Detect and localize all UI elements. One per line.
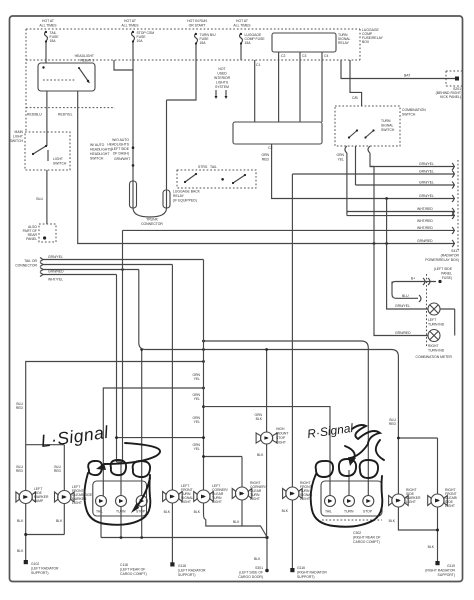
svg-text:PANEL: PANEL [441, 272, 452, 276]
svg-text:KICK PANEL): KICK PANEL) [440, 95, 461, 99]
combination switch pin curls [336, 146, 370, 162]
right bus wire 4 GRN/YEL from hazard pin [261, 144, 455, 200]
wire switch down [36, 170, 47, 224]
wire high mount stop down [257, 444, 267, 538]
fuse F2 STOP 10A [132, 31, 155, 43]
svg-text:HEADLIGHT: HEADLIGHT [90, 152, 109, 156]
svg-text:LIGHT: LIGHT [212, 500, 222, 504]
svg-text:ALL TIMES: ALL TIMES [121, 24, 139, 28]
wire relay K1 pin 3 to hazard switch [321, 52, 323, 122]
svg-text:BLU: BLU [402, 294, 409, 298]
trunk connector label [15, 259, 37, 268]
svg-text:10A: 10A [137, 39, 144, 43]
svg-text:BLK: BLK [282, 509, 289, 513]
svg-text:COMBINATION METER: COMBINATION METER [416, 355, 453, 359]
hand circle right blob 1 [316, 461, 333, 477]
left kick panel label [434, 267, 453, 280]
svg-text:TURN IND: TURN IND [428, 323, 445, 327]
relay U1 headlight relay 1 box [38, 54, 95, 91]
svg-text:(LEFT SIDE: (LEFT SIDE [111, 147, 130, 151]
fuse F3 TURN B/U 15A [195, 33, 217, 45]
wire chain B rear lights right [139, 270, 399, 439]
svg-text:RELAY: RELAY [338, 41, 350, 45]
svg-text:CARGO DOOR): CARGO DOOR) [238, 575, 263, 579]
svg-text:CONNECTOR: CONNECTOR [141, 222, 163, 226]
svg-text:WHT/RED: WHT/RED [417, 219, 433, 223]
bulb socket C right [363, 496, 374, 514]
svg-text:BLK: BLK [233, 520, 240, 524]
svg-text:RED: RED [16, 406, 24, 410]
connector pins into meter [402, 274, 427, 347]
wire relay K1 pin 2 to hazard switch [299, 52, 301, 122]
svg-text:TURN IND: TURN IND [428, 349, 445, 353]
wire front park loop [26, 445, 65, 491]
fuse F1 TAIL 15A [45, 31, 60, 43]
wire tail connector D [40, 273, 117, 282]
lamp B1 left side marker [16, 491, 36, 504]
wire stop fuse down to trunk connector [132, 43, 134, 209]
bulb socket C left [136, 496, 147, 514]
svg-text:GRN: GRN [261, 153, 269, 157]
lamp B9 high mount stop light [256, 432, 277, 444]
svg-text:C3: C3 [302, 54, 306, 58]
right bus wire 2 GRN/YEL from hazard corner [292, 170, 455, 175]
svg-text:STRG: STRG [198, 165, 208, 169]
wire cluster feed A [103, 387, 205, 462]
svg-text:SUPPORT): SUPPORT) [438, 573, 455, 577]
hand circle right blob 2 [339, 459, 356, 476]
right bus wire 3 GRN/YEL [356, 181, 456, 186]
wire right cluster top feed [204, 407, 331, 462]
svg-text:POWER/RELAY BOX): POWER/RELAY BOX) [425, 258, 459, 262]
svg-text:YEL: YEL [194, 447, 201, 451]
svg-text:LIGHT: LIGHT [300, 497, 310, 501]
svg-text:MAIN: MAIN [15, 130, 24, 134]
wire splice S301 drop [238, 538, 268, 580]
svg-text:BLK: BLK [254, 557, 261, 561]
svg-text:BLU: BLU [36, 197, 43, 201]
svg-text:RED: RED [389, 422, 397, 426]
svg-text:HOT AT: HOT AT [124, 19, 136, 23]
right bus wire 7 WHT/RED [123, 226, 456, 230]
wire relay out 2 long run to right bus [78, 91, 455, 244]
svg-text:GRN/RED: GRN/RED [417, 239, 433, 243]
hand arrow R2 [350, 440, 384, 460]
wire comb switch pin1 to bus pair [347, 153, 349, 216]
svg-text:W/ AUTO: W/ AUTO [90, 143, 105, 147]
svg-text:GRN/YEL: GRN/YEL [419, 181, 434, 185]
svg-text:HOT AT: HOT AT [42, 19, 54, 23]
svg-text:(RIGHT RADIATOR: (RIGHT RADIATOR [425, 569, 455, 573]
svg-text:WHT/RED: WHT/RED [417, 226, 433, 230]
svg-text:GRN/YEL: GRN/YEL [419, 194, 434, 198]
svg-text:(LEFT RADIATOR: (LEFT RADIATOR [178, 569, 206, 573]
svg-text:G118: G118 [178, 564, 186, 568]
left tail light assembly box [93, 462, 147, 516]
svg-text:RELAY 1: RELAY 1 [80, 59, 94, 63]
svg-text:C118: C118 [120, 563, 128, 567]
svg-text:RED/BLU: RED/BLU [27, 113, 42, 117]
svg-text:SWITCH: SWITCH [381, 128, 395, 132]
svg-text:SWITCH: SWITCH [10, 139, 24, 143]
svg-text:RED: RED [54, 469, 62, 473]
node label HOT AT ALL TIMES (tail fuse) [39, 19, 57, 28]
wire comb switch pin mid to bus 3 [355, 146, 357, 185]
svg-text:BLK: BLK [164, 510, 171, 514]
svg-text:WHT/RED: WHT/RED [417, 207, 433, 211]
svg-text:PANEL: PANEL [26, 237, 37, 241]
svg-text:SIGNAL: SIGNAL [381, 124, 394, 128]
svg-text:CONNECTOR: CONNECTOR [15, 264, 37, 268]
svg-text:TRUNK: TRUNK [146, 218, 158, 222]
svg-text:RED: RED [16, 469, 24, 473]
headlight switch note mid [90, 143, 112, 161]
junction dots on bus GRN/RED [373, 239, 434, 245]
svg-text:MOUNT: MOUNT [276, 432, 288, 436]
svg-text:TAIL: TAIL [96, 510, 103, 514]
svg-text:HIGH: HIGH [276, 427, 285, 431]
lamp B6 right front turn signal [283, 487, 303, 500]
hand circle left blob 3 [133, 461, 150, 477]
svg-text:HOT AT: HOT AT [236, 19, 248, 23]
svg-text:LAMP: LAMP [34, 499, 44, 503]
svg-text:SWITCH: SWITCH [53, 162, 67, 166]
wire right clearance ground jog [233, 500, 267, 561]
wire tail connector A [40, 255, 204, 262]
hand circle right blob 3 [360, 460, 378, 478]
svg-text:ALL TIMES: ALL TIMES [39, 24, 57, 28]
wire to combination meter B+ [392, 277, 442, 299]
fuse F4 LUGGAGE 15A [240, 33, 266, 45]
hand circle left blob 1 [88, 461, 102, 475]
right edge connector marks [452, 160, 458, 250]
svg-text:STOP: STOP [276, 436, 286, 440]
hand arrow L [104, 443, 160, 464]
right assembly connector row [322, 520, 382, 544]
connector C-bat dashed [446, 71, 464, 86]
node label HOT IN RUN OR START [187, 19, 207, 28]
bulb socket A left [96, 496, 107, 514]
svg-text:INTERIOR: INTERIOR [214, 76, 231, 80]
svg-text:SYSTEM: SYSTEM [215, 85, 229, 89]
svg-text:STOP: STOP [136, 510, 146, 514]
combination meter label [416, 355, 453, 359]
svg-text:LIGHT: LIGHT [276, 441, 286, 445]
svg-text:RIGHT: RIGHT [428, 344, 439, 348]
svg-text:S417: S417 [451, 249, 459, 253]
luggage comp fuse/relay box label [362, 28, 384, 44]
handwriting R-Signal [306, 421, 354, 441]
wire luggage fuse down [240, 45, 242, 61]
svg-text:FUSE): FUSE) [442, 276, 452, 280]
bottom bus wire [101, 536, 269, 539]
fuse panel dashed box [26, 29, 360, 132]
wire turn fuse down [167, 45, 197, 101]
bulb socket A right [325, 496, 336, 514]
wire right front turn feed [291, 174, 293, 487]
svg-text:GRN/YEL: GRN/YEL [395, 304, 410, 308]
ground chain G102 [17, 504, 64, 576]
svg-text:BLK: BLK [194, 510, 201, 514]
svg-text:(LEFT RADIATOR: (LEFT RADIATOR [31, 567, 59, 571]
switch box hazard switch [233, 122, 322, 150]
switch S1 light switch dashed box [10, 130, 70, 170]
svg-text:BOX: BOX [362, 40, 370, 44]
wire color labels park pair [16, 465, 62, 473]
svg-text:G116: G116 [297, 566, 305, 570]
svg-text:USED: USED [217, 72, 227, 76]
right tail light assembly box [321, 462, 382, 516]
wire fuse panel to hazard switch [254, 60, 256, 122]
bulb socket B left [116, 496, 127, 514]
interior lights system reference [214, 67, 231, 99]
bulb socket B right [344, 496, 355, 514]
left assembly label C118 [120, 563, 147, 576]
svg-text:C2: C2 [281, 54, 285, 58]
svg-text:GRN/YEL: GRN/YEL [419, 170, 434, 174]
svg-text:CARGO COMPT): CARGO COMPT) [353, 540, 380, 544]
svg-text:LIGHT: LIGHT [250, 497, 260, 501]
svg-text:LIGHT: LIGHT [72, 501, 82, 505]
svg-text:TAIL OR: TAIL OR [24, 259, 37, 263]
svg-text:HOT IN RUN: HOT IN RUN [187, 19, 207, 23]
svg-text:BLK: BLK [256, 417, 263, 421]
svg-text:RED: RED [262, 158, 270, 162]
svg-text:SUPPORT): SUPPORT) [178, 573, 195, 577]
svg-text:G119: G119 [447, 564, 455, 568]
svg-text:YEL: YEL [338, 158, 345, 162]
svg-text:YEL: YEL [194, 377, 201, 381]
svg-text:TAIL: TAIL [325, 510, 332, 514]
svg-text:GRN/WHT: GRN/WHT [114, 157, 130, 161]
svg-text:GRN: GRN [336, 153, 344, 157]
wire tail connector B [40, 263, 172, 274]
relay K1 turn signal relay box [272, 33, 351, 52]
wire relay out 1 [46, 91, 48, 146]
svg-text:BLK: BLK [17, 549, 24, 553]
wire cluster feed D [140, 348, 143, 462]
wire right front clearance feed jog [202, 455, 242, 487]
wire relay K1 pin 1 to hazard switch [278, 52, 280, 122]
svg-text:TURN: TURN [381, 119, 391, 123]
svg-text:15A: 15A [245, 41, 252, 45]
lamp B3 left front turn signal [163, 490, 183, 503]
wire chain B split to B7 B8 [389, 418, 438, 494]
svg-text:LIGHT: LIGHT [445, 504, 455, 508]
hand loop around right assembly [311, 474, 383, 527]
svg-text:(LEFT REAR OF: (LEFT REAR OF [120, 568, 145, 572]
svg-text:COMBINATION: COMBINATION [402, 108, 426, 112]
svg-text:TAIL: TAIL [210, 165, 217, 169]
svg-text:G102: G102 [31, 562, 39, 566]
svg-text:GRN/YEL: GRN/YEL [48, 255, 63, 259]
lamp B4 left cornering [194, 490, 214, 503]
wire cluster feed B [117, 275, 204, 463]
hand scribble R tail [352, 425, 380, 443]
svg-text:OR START: OR START [189, 24, 206, 28]
svg-text:W/O AUTO: W/O AUTO [112, 138, 129, 142]
svg-text:15A: 15A [200, 41, 207, 45]
svg-text:BLK: BLK [389, 519, 396, 523]
svg-text:(RADIATOR: (RADIATOR [441, 254, 460, 258]
wire chain A rear lights right [202, 340, 368, 462]
svg-text:SWITCH: SWITCH [90, 157, 104, 161]
wire comb switch pin2 to bus 1 [370, 153, 374, 167]
svg-text:NOT: NOT [218, 67, 225, 71]
right bus wire 5 WHT/RED [347, 207, 455, 212]
svg-text:15A: 15A [50, 39, 57, 43]
svg-text:GRN/RED: GRN/RED [48, 270, 64, 274]
right bus wire 6 WHT/RED [347, 216, 455, 223]
connector C90 dashed with splice [23, 224, 56, 242]
indicator L1 left turn bulb [387, 199, 455, 336]
svg-text:SUPPORT): SUPPORT) [297, 575, 314, 579]
indicator L2 right turn bulb [374, 167, 445, 353]
wire cluster feed C [122, 230, 124, 462]
wire front park pair feed [16, 360, 205, 445]
svg-text:OF DASH): OF DASH) [113, 152, 129, 156]
svg-text:ALL TIMES: ALL TIMES [233, 24, 251, 28]
svg-text:(LEFT SIDE: (LEFT SIDE [434, 267, 453, 271]
svg-text:BLK: BLK [257, 453, 264, 457]
svg-text:TURN: TURN [344, 510, 354, 514]
splice label S417 [425, 249, 459, 262]
svg-text:(IF EQUIPPED): (IF EQUIPPED) [173, 199, 197, 203]
svg-text:C4: C4 [324, 54, 328, 58]
jog wire auto headlight pin [114, 60, 133, 70]
svg-text:(RIGHT REAR OF: (RIGHT REAR OF [353, 536, 381, 540]
svg-text:CARGO COMPT): CARGO COMPT) [120, 572, 147, 576]
hand loop around left assembly [84, 473, 150, 525]
svg-text:B+: B+ [411, 277, 415, 281]
svg-text:BLK: BLK [428, 545, 435, 549]
svg-text:SWITCH: SWITCH [402, 113, 416, 117]
switch S2 luggage back switch dashed [173, 165, 256, 203]
svg-text:RED/YEL: RED/YEL [58, 113, 73, 117]
node label HOT AT ALL TIMES (stop fuse) [121, 19, 139, 28]
svg-text:HEADLIGHTS: HEADLIGHTS [90, 148, 112, 152]
lamp B2 left front clearance [55, 491, 75, 504]
wire tail fuse to headlight relay [45, 43, 47, 64]
svg-text:LIGHTS: LIGHTS [216, 81, 229, 85]
ground chain G118 [164, 503, 206, 577]
svg-text:GRN/RED: GRN/RED [395, 331, 411, 335]
hand circle left blob 2 [111, 460, 126, 475]
trunk pass-through connector U-shape [130, 100, 171, 226]
svg-text:LIGHT: LIGHT [13, 135, 23, 139]
svg-text:(RIGHT RADIATOR: (RIGHT RADIATOR [297, 571, 327, 575]
svg-text:LIGHT: LIGHT [181, 500, 191, 504]
battery feed wire B+ [341, 60, 457, 79]
right bus wire 1 GRN/YEL [370, 162, 455, 167]
svg-text:(LEFT SIDE OF: (LEFT SIDE OF [239, 571, 263, 575]
svg-text:BLK: BLK [17, 519, 24, 523]
ground G117 right front turn [290, 500, 327, 579]
svg-text:RELAY: RELAY [173, 194, 185, 198]
svg-text:GRN/YEL: GRN/YEL [419, 162, 434, 166]
node label HOT AT ALL TIMES (luggage fuse) [233, 19, 251, 28]
svg-text:C/B: C/B [352, 96, 358, 100]
svg-text:C302: C302 [353, 531, 361, 535]
hand arrow into left assembly [134, 478, 150, 510]
connector dashed line C100 [26, 108, 115, 117]
svg-text:SUPPORT): SUPPORT) [31, 571, 48, 575]
pin labels below relay [256, 54, 328, 67]
auto headlamp module note [107, 138, 134, 167]
svg-text:LIGHT: LIGHT [53, 157, 63, 161]
svg-text:YEL: YEL [194, 397, 201, 401]
svg-text:LUGGAGE BACK: LUGGAGE BACK [173, 190, 201, 194]
wire tail connector C [40, 268, 139, 272]
svg-text:HEADLIGHTS: HEADLIGHTS [107, 143, 129, 147]
lamp B8 right front clearance light [428, 494, 448, 507]
ground chain G119 [389, 507, 456, 577]
svg-text:BLK: BLK [56, 519, 63, 523]
wire high mount stop feed [254, 348, 268, 432]
left assembly ground drops [101, 507, 142, 538]
wire left front turn feed [171, 265, 173, 491]
lamp B5 right front clearance [232, 487, 252, 500]
svg-text:LIGHT: LIGHT [406, 500, 416, 504]
svg-text:BAT: BAT [404, 74, 410, 78]
lamp B7 right side marker [389, 494, 409, 507]
node label S201 [436, 87, 462, 99]
svg-text:LEFT: LEFT [428, 318, 436, 322]
handwriting L-Signal [39, 422, 110, 451]
svg-text:HEADLIGHT: HEADLIGHT [75, 54, 94, 58]
wire left rear turn feed with splices [115, 260, 205, 491]
wire left corner light ground jog [204, 503, 243, 526]
svg-text:YEL: YEL [194, 420, 201, 424]
switch S3 combination switch dashed box [335, 106, 426, 146]
wire combination switch feed from panel [350, 60, 362, 106]
svg-text:WHT/YEL: WHT/YEL [48, 278, 63, 282]
hand arrow R [345, 446, 355, 462]
svg-text:C1: C1 [256, 63, 260, 67]
svg-text:STOP: STOP [363, 510, 373, 514]
svg-text:S301: S301 [255, 566, 263, 570]
